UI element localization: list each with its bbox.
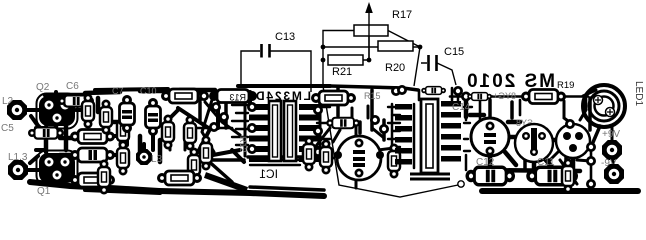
wire bottom trace middle [159,191,324,196]
resistor horizontal x164 low [157,171,202,185]
wire node x323 [323,31,354,87]
wire T7 horizontals [470,115,580,171]
pads near cap [370,115,380,125]
svg-text:R17: R17 [392,9,412,21]
capacitor footprint under R15 [326,118,360,129]
IC2 bottom double trace [410,174,450,179]
pad on rail [461,92,471,102]
pot R17 wiper arrow [368,9,370,60]
connector body right [562,159,574,194]
capacitor mini top IC2 [421,87,446,95]
IC2 body outlined column [421,99,438,173]
wire bottom trace mid2 [250,187,324,190]
wire IC1 bottom row [250,160,320,165]
pad left of R13 [199,91,209,101]
transistor Q2 footprint [37,94,78,129]
wire IC1 left brush [232,105,248,145]
via [458,181,464,187]
capacitor C5 footprint [28,127,64,138]
svg-text:R21: R21 [332,66,352,78]
resistor R19 footprint [521,90,566,104]
svg-text:C13: C13 [275,31,295,43]
svg-text:R19: R19 [557,80,574,91]
svg-text:C7: C7 [112,86,124,96]
wire IC2 left brush [388,107,400,155]
wire right verticals from rail [480,96,586,122]
resistor R11 footprint [70,173,115,187]
svg-text:R13: R13 [229,93,246,103]
pad L3 [136,149,152,165]
capacitor C13 [262,44,270,58]
resistor vertical x168 [162,115,174,150]
wire T2 mid verticals [98,98,160,162]
wire bottom trace left [30,182,159,191]
svg-text:R20: R20 [385,62,405,74]
pad L2 [7,100,27,120]
resistor vertical x190 [184,116,196,151]
wire top edge over IC1 [238,84,330,88]
IC1 pin pads [247,102,257,112]
svg-text:L3: L3 [151,154,163,165]
wire T3 rails [196,100,244,182]
wire IC1 bottom band [248,155,320,159]
wire donut L1 link [25,168,40,172]
wire R17 right diagonal [388,31,420,48]
wire T5 diagonals [316,106,384,146]
wire C13 right leg [270,51,311,92]
resistor vertical x326 [320,140,332,175]
wire R13 cluster diagonals [202,100,240,152]
resistor vertical x206 [200,136,212,171]
resistor vertical x394 [388,144,400,179]
svg-text:C15: C15 [444,46,464,58]
resistor R21 [328,55,363,65]
wire Q2 column [46,125,66,152]
capacitor footprint mid-left [70,148,115,162]
wire left verticals extra [30,92,84,163]
wire C13 left leg [241,51,260,88]
wire C15 leads [421,63,456,85]
capacitor footprint vertical x123 [117,114,129,149]
wire T8 links [560,90,612,176]
pad C15 left [397,85,407,95]
svg-text:IC1: IC1 [259,167,278,181]
resistor R15 footprint [311,91,356,105]
transistor circle B [515,124,553,162]
wire T2 top rail [95,89,168,90]
capacitor small top right [467,93,492,101]
resistor horizontal x166 top [161,89,206,103]
wire long thin net to via [323,86,458,197]
IC2 footprint pins left [395,104,412,165]
terminal pad -9V [604,164,624,184]
pad L1 [8,160,28,180]
wire R19 rail [450,95,588,98]
electrolytic C7 footprint [120,95,135,133]
svg-text:Q2: Q2 [36,82,50,93]
svg-text:R12: R12 [238,136,248,153]
resistor vertical x104 [98,160,110,195]
wire top edge right of IC1 [330,86,418,90]
electrolytic C11 footprint [526,167,578,185]
wire bigcircle links [315,125,394,188]
resistor R20 [378,41,413,51]
IC1 footprint pins right [299,104,319,162]
IC1 body columns [269,101,281,161]
wire donut pads right link [612,150,614,174]
svg-text:C6: C6 [66,81,79,92]
electrolytic C10 footprint [146,98,161,136]
wire right low diag [548,150,577,184]
svg-text:C14: C14 [452,102,471,113]
resistor vertical x106 [100,100,112,135]
capacitor C15 [429,55,437,71]
transistor big circle footprint [334,136,384,180]
wire T2 bottom [85,190,160,193]
resistor vertical x123 low [117,141,129,176]
IC2 footprint pins right [441,101,461,162]
wire donut L2 link [24,108,42,112]
wire LED drop [562,98,600,148]
connector pads column [586,142,596,152]
resistor vertical x194 low [188,148,200,183]
wire bottom trace right [482,188,638,194]
electrolytic C12 footprint [466,167,516,185]
junction node dots [321,45,326,50]
LED1 pads [594,96,603,105]
wire IC2 rails [392,96,466,170]
wire R20 row [323,46,420,48]
svg-text:C5: C5 [1,123,14,134]
capacitor vertical x88 top [82,94,94,129]
pad C15 right [453,86,463,96]
wire left mid links [60,138,75,180]
IC1 footprint pins left [249,104,268,162]
transistor Q1 footprint [37,151,78,186]
wire C15 pads drop [419,88,452,100]
svg-text:+9V: +9V [602,129,620,140]
svg-text:Q1: Q1 [37,186,51,197]
pads cluster mid [211,102,221,112]
wire T3 diagonals [170,92,250,162]
svg-text:R15: R15 [364,91,381,101]
wire caps row links [110,133,153,155]
trace bottom-left of IC [205,175,247,190]
wire connector column [590,145,593,185]
svg-text:C10: C10 [140,86,157,96]
resistor R13 footprint with mirrored label [209,90,257,103]
pad near R15 [391,86,401,96]
capacitor C6 footprint [58,95,94,106]
wire R21 row [363,36,369,60]
wire IC2 right links [464,107,472,151]
pad x568 [565,119,575,129]
resistor R7 footprint [70,130,115,144]
wire IC1 vertical rails [245,98,320,156]
potentiometer R17 [354,25,388,36]
wire right circles links [466,100,573,172]
transistor circle C [556,124,590,158]
wire mid band y130 [196,127,232,130]
resistor vertical x309 [303,137,315,172]
wire mid verticals [170,92,185,150]
wire C15 drop [414,47,420,86]
LED1 rings [583,85,625,127]
wire T5 verticals [338,88,384,140]
wire top edge left [45,90,215,95]
wire IC1 right brush [317,107,336,151]
terminal pad +9V [602,140,622,160]
svg-text:LED1: LED1 [633,81,644,106]
electrolytic C14 circle footprint [471,118,509,156]
wire T7 verticals [490,100,566,170]
svg-text:8YG+: 8YG+ [493,91,516,101]
